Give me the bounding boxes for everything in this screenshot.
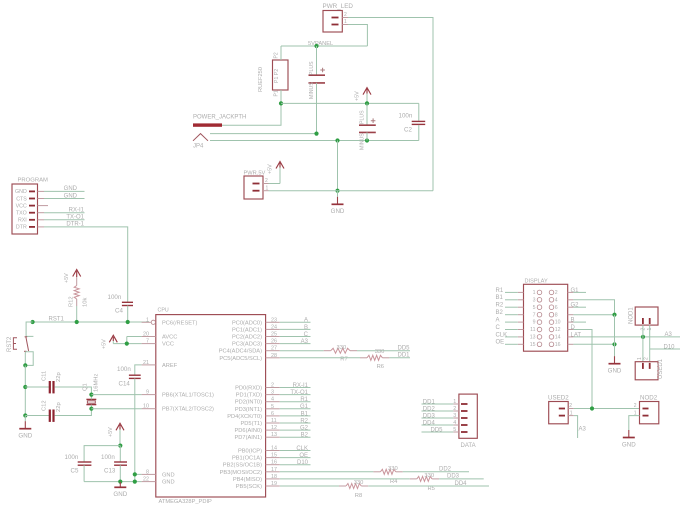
svg-text:CTS: CTS (16, 196, 27, 202)
svg-text:MINUS: MINUS (360, 133, 366, 150)
wire NOD1 pin1 to D10 / USED1 pin2 (649, 325, 651, 362)
svg-text:G2: G2 (300, 426, 309, 432)
svg-text:C11: C11 (42, 371, 48, 381)
svg-text:MINUS: MINUS (309, 82, 315, 99)
svg-text:PROGRAM: PROGRAM (18, 178, 49, 184)
junction RST / switch (30, 320, 34, 324)
svg-text:R6: R6 (377, 364, 384, 370)
connector DISPLAY (2x8 header) (524, 279, 568, 352)
wire PD7 / net label B2 (280, 433, 311, 439)
capacitor C1 polarized (PLUS/MINUS) (309, 46, 326, 134)
svg-text:CPU: CPU (158, 308, 169, 314)
svg-text:GND: GND (15, 189, 27, 195)
svg-text:7: 7 (146, 339, 149, 345)
CPU pin 8 GND (142, 469, 175, 478)
CPU pin 11 PD5(T1) (241, 418, 280, 427)
wire PC2 / net label C (280, 332, 311, 338)
junction GND column / C12 (23, 413, 27, 417)
svg-text:P1: P1 (274, 90, 280, 96)
svg-text:15: 15 (271, 453, 277, 459)
connector NOD1 (solder jumper) (629, 307, 659, 331)
power symbol +5V (PWR.5V) (268, 162, 285, 184)
wire DISPLAY left pin / net label OE (496, 340, 518, 346)
svg-text:100n: 100n (65, 454, 79, 461)
junction +5V rail / C3 plus (365, 101, 369, 105)
wire PD3 / net label G1 (280, 404, 311, 410)
svg-text:R12: R12 (69, 296, 75, 307)
CPU pin 13 PD7(AIN1) (235, 432, 280, 441)
wire PB1 / net label OE (280, 453, 311, 459)
svg-text:OE: OE (299, 453, 308, 459)
connector NOD2 (solder jumper) (634, 394, 659, 424)
wire PWR.5V pin2 to +5V arrow (269, 183, 281, 185)
svg-text:2: 2 (453, 406, 456, 412)
svg-text:14: 14 (271, 446, 277, 452)
resistor R7 330 (PC4 to DD5) (280, 345, 410, 362)
svg-text:PB5(SCK): PB5(SCK) (236, 484, 262, 490)
svg-text:27: 27 (271, 346, 277, 352)
svg-text:13: 13 (530, 335, 536, 341)
svg-text:PB6(XTAL1/TOSC1): PB6(XTAL1/TOSC1) (162, 393, 214, 399)
resistor R8 330 (PB5 to DD4) (280, 480, 489, 499)
CPU pin 5 PD3(INT1) (235, 404, 280, 413)
svg-text:DD1: DD1 (397, 353, 410, 359)
pin GND of PROGRAM (15, 189, 44, 195)
svg-text:25: 25 (271, 332, 277, 338)
wire PD5 / net label R2 (280, 418, 311, 424)
DISPLAY pins 7,8 row (518, 312, 574, 318)
svg-text:TX-O1: TX-O1 (290, 390, 308, 396)
wire DISPLAY left pin / net label C (496, 325, 518, 331)
CPU pin 3 PD1(TXD) (236, 390, 280, 399)
wire PROGRAM GND pin / net label GND (44, 186, 85, 192)
wire C14 to GND rail (long vertical) (134, 378, 136, 481)
svg-text:100n: 100n (108, 294, 122, 301)
wire PD2 / net label R1 (280, 397, 311, 403)
svg-text:B2: B2 (496, 310, 504, 316)
CPU pin 16 PB2(SS/OC1B) (223, 460, 280, 469)
svg-text:B2: B2 (301, 433, 309, 439)
pin 5 of DATA / net DD5 (422, 427, 468, 433)
DISPLAY pins 1,2 row (518, 290, 574, 296)
svg-text:330: 330 (375, 349, 385, 355)
junction crystal XTAL1 (89, 393, 93, 397)
CPU pin 23 PC0(ADC0) (232, 317, 280, 326)
svg-text:22: 22 (143, 477, 149, 483)
wire PWR_LED pin2 to GND rail (right side drop) (348, 18, 433, 191)
svg-text:PD1(TXD): PD1(TXD) (236, 393, 262, 399)
svg-text:6: 6 (555, 305, 558, 311)
svg-text:OE: OE (496, 340, 505, 346)
svg-text:TXO: TXO (16, 211, 27, 217)
svg-text:PWR.5V: PWR.5V (244, 171, 266, 177)
wire XTAL2 to CPU pin 10 (91, 408, 141, 410)
svg-text:AVCC: AVCC (162, 335, 177, 341)
svg-text:PC4(ADC4/SDA): PC4(ADC4/SDA) (219, 349, 262, 355)
wire DISPLAY left pin / net label B2 (496, 310, 518, 316)
wire GND rail drop to PWR.5V pin1 row (337, 141, 339, 191)
svg-text:GND: GND (331, 208, 345, 215)
svg-text:GND: GND (64, 186, 78, 192)
junction A3 rail / NOD1 (641, 335, 645, 339)
power symbol +5V (top) (355, 88, 372, 104)
svg-text:4: 4 (555, 297, 558, 303)
wire DISPLAY pin12 net D to USED2/NOD2 (571, 325, 593, 409)
svg-text:20: 20 (143, 332, 149, 338)
svg-text:PLUS: PLUS (360, 110, 366, 124)
wire PC0 / net label A (280, 318, 311, 324)
svg-text:+5V: +5V (268, 164, 274, 174)
wire +5V rail right drop to C2 (418, 103, 420, 121)
svg-text:GND: GND (64, 193, 78, 199)
wire DISPLAY pin14 net LAT / A3 rail (571, 332, 680, 338)
capacitor C4 100n (DTR-reset) (108, 294, 134, 322)
wire +5V to CPU pins 20 and 7 (113, 337, 141, 344)
svg-text:GND: GND (608, 368, 622, 375)
svg-text:GND: GND (162, 480, 175, 486)
svg-text:C14: C14 (119, 381, 131, 388)
svg-text:PD7(AIN1): PD7(AIN1) (235, 435, 263, 441)
junction GND drop / pin16 (612, 342, 616, 346)
resistor R12 10k (reset pullup) (69, 286, 89, 323)
svg-text:C2: C2 (404, 127, 412, 134)
wire DISPLAY left pin / net label CLK (496, 332, 518, 338)
wire DISPLAY pin10 / net label B (571, 318, 587, 324)
svg-text:PC2(ADC2): PC2(ADC2) (232, 335, 262, 341)
crystal Q1 16MHz (83, 374, 100, 409)
junction 5VPANEL / C1 plus (314, 44, 318, 48)
svg-text:1: 1 (146, 317, 149, 323)
svg-text:11: 11 (530, 327, 535, 333)
svg-text:NOD1: NOD1 (629, 307, 635, 324)
svg-text:R1: R1 (300, 397, 308, 403)
wire USED2 pin1 / net label A3 (574, 416, 587, 438)
svg-text:Q1: Q1 (83, 383, 89, 391)
svg-text:11: 11 (271, 418, 277, 424)
connector PROGRAM (FTDI 6-pin) (12, 178, 48, 235)
svg-text:PC1(ADC1): PC1(ADC1) (232, 327, 262, 333)
svg-text:DTR-1: DTR-1 (66, 222, 84, 228)
wire DISPLAY pin6 / net label G2 (571, 303, 587, 309)
svg-text:330: 330 (337, 345, 347, 351)
connector USED1 (solder jumper) (635, 357, 664, 380)
wire PWR_LED pin1 to 5VPANEL (348, 25, 367, 47)
pin DTR of PROGRAM (16, 225, 44, 231)
svg-text:3: 3 (533, 297, 536, 303)
wire to ground symbol (crystal caps) (24, 416, 26, 422)
svg-text:PC0(ADC0): PC0(ADC0) (232, 320, 262, 326)
svg-text:TX-O1: TX-O1 (66, 215, 84, 221)
wire jack pad to fuse node (222, 103, 281, 125)
svg-text:PD0(RXD): PD0(RXD) (235, 386, 262, 392)
svg-text:A3: A3 (301, 339, 309, 345)
svg-text:PB4(MISO): PB4(MISO) (233, 477, 262, 483)
svg-text:4: 4 (271, 397, 274, 403)
svg-text:RXI: RXI (18, 218, 27, 224)
wire USED2 pin2 to NOD2 pin2 (net D) (574, 408, 640, 410)
wire +5V rail horizontal (281, 102, 419, 104)
junction GND drop / pin8 (612, 313, 616, 317)
svg-text:22p: 22p (56, 402, 62, 412)
CPU pin 21 AREF (142, 360, 178, 369)
junction VCC/AVCC (125, 342, 129, 346)
wire CPU pin21 AREF to C14 (135, 365, 142, 375)
svg-text:D10: D10 (664, 344, 676, 350)
capacitor C5 100n (65, 454, 92, 482)
wire NOD2 pin1 to GND (629, 416, 640, 431)
junction C1 minus / jack (314, 132, 318, 136)
svg-text:3: 3 (453, 413, 456, 419)
junction GND rail / pin8 (133, 472, 137, 476)
wire DISPLAY left pin / net label B1 (496, 295, 518, 301)
svg-text:RUEF250: RUEF250 (258, 67, 264, 92)
svg-text:GND: GND (113, 491, 127, 498)
svg-text:24: 24 (271, 324, 277, 330)
resistor R5 330 (PB4 to DD3) (280, 473, 484, 492)
svg-text:B: B (304, 325, 308, 331)
svg-text:14: 14 (555, 335, 561, 341)
junction GND rail at drop (335, 138, 339, 142)
svg-text:P1 P2: P1 P2 (274, 69, 280, 83)
DISPLAY pins 5,6 row (518, 305, 574, 311)
CPU pin 20 AVCC (142, 332, 178, 341)
svg-text:4: 4 (453, 420, 456, 426)
fuse F1 RUEF250 (258, 46, 288, 97)
svg-text:R8: R8 (355, 493, 362, 499)
resistor R4 330 (PB3 to DD2) (280, 466, 469, 485)
wire PC3 / net label A3 (280, 339, 311, 345)
junction fuse / +5V rail (279, 101, 283, 105)
svg-text:23: 23 (271, 317, 277, 323)
svg-text:28: 28 (271, 353, 277, 359)
svg-text:DATA: DATA (461, 443, 476, 449)
svg-text:G1: G1 (300, 404, 309, 410)
connector PWR_LED (2-pin header) (323, 3, 354, 32)
wire DISPLAY pin16 to GND (573, 343, 614, 345)
svg-text:PB2(SS/OC1B): PB2(SS/OC1B) (223, 463, 262, 469)
pin CTS of PROGRAM (16, 196, 44, 202)
junction +5V / C5 branch (118, 444, 122, 448)
svg-text:1: 1 (533, 290, 536, 296)
svg-text:+5V: +5V (64, 273, 70, 283)
ground symbol (DISPLAY) (608, 356, 622, 374)
svg-text:PD2(INT0): PD2(INT0) (235, 400, 262, 406)
DISPLAY pins 3,4 row (518, 297, 574, 303)
svg-text:330: 330 (424, 473, 434, 479)
DISPLAY pins 15,16 row (518, 342, 574, 348)
svg-text:PD3(INT1): PD3(INT1) (235, 407, 262, 413)
svg-text:C: C (496, 325, 501, 331)
svg-text:DTR: DTR (16, 225, 27, 231)
svg-text:12: 12 (271, 425, 277, 431)
svg-text:USED1: USED1 (658, 358, 664, 379)
wire DISPLAY pin8 to GND drop (573, 314, 614, 316)
power jack POWER_JACKPTH JP4 (193, 115, 246, 150)
pin 1 of DATA / net DD1 (422, 399, 468, 405)
connector DATA (5-pin header) (459, 394, 477, 449)
svg-text:RST2: RST2 (7, 336, 13, 352)
power symbol +5V (CPU VCC) (102, 335, 118, 349)
svg-text:VCC: VCC (162, 342, 174, 348)
svg-text:B: B (571, 318, 575, 324)
svg-text:GND: GND (162, 472, 175, 478)
junction net D (590, 406, 594, 410)
wire net 5VPANEL horizontal (281, 45, 367, 47)
svg-text:G2: G2 (571, 303, 580, 309)
pin VCC of PROGRAM (16, 203, 44, 209)
CPU pin 7 VCC (142, 339, 174, 348)
svg-text:B1: B1 (496, 295, 504, 301)
svg-text:2: 2 (644, 357, 650, 360)
capacitor C11 22p (25, 371, 91, 395)
wire DISPLAY left pin / net label A (496, 318, 518, 324)
svg-text:5: 5 (453, 427, 456, 433)
svg-text:PD4(XCK/T0): PD4(XCK/T0) (227, 414, 262, 420)
capacitor C3 polarized (PLUS/MINUS) (359, 103, 376, 150)
svg-text:DD4: DD4 (454, 481, 467, 487)
svg-text:+5V: +5V (355, 91, 361, 101)
svg-text:100n: 100n (101, 454, 115, 461)
CPU pin 17 PB3(MOSI/OC2) (220, 467, 280, 476)
svg-text:21: 21 (143, 360, 149, 366)
svg-text:+5V: +5V (102, 339, 108, 349)
op-amp: none; IC U1 ATMEGA328P_PDIP CPU body (156, 308, 266, 506)
CPU pin 26 PC3(ADC3) (232, 339, 280, 348)
junction GND rail / C13 (118, 480, 122, 484)
CPU pin 27 PC4(ADC4/SDA) (219, 346, 280, 355)
svg-text:AREF: AREF (162, 363, 178, 369)
junction GND column / C11 (23, 385, 27, 389)
svg-text:PLUS: PLUS (309, 61, 315, 75)
wire +5V branch to C5 (84, 446, 120, 462)
ground symbol (CPU) (113, 482, 127, 498)
CPU pin 9 PB6(XTAL1/TOSC1) (142, 390, 214, 399)
svg-text:17: 17 (271, 467, 277, 473)
svg-text:330: 330 (388, 466, 398, 472)
svg-text:C: C (304, 332, 309, 338)
svg-text:R1: R1 (496, 288, 504, 294)
svg-text:22p: 22p (56, 372, 62, 382)
wire jack top pin to C1 minus (210, 133, 317, 135)
power symbol +5V (reset pullup) (64, 270, 81, 286)
svg-text:R5: R5 (428, 486, 435, 492)
svg-text:2: 2 (569, 403, 572, 409)
svg-text:16: 16 (555, 342, 561, 348)
svg-text:10: 10 (555, 320, 561, 326)
pin numbers PWR_LED 2,1 (344, 12, 347, 25)
CPU pin 24 PC1(ADC1) (232, 324, 280, 333)
CPU pin 22 GND (142, 477, 175, 486)
svg-text:NOD2: NOD2 (640, 394, 658, 401)
wire DISPLAY left pin / net label R2 (496, 303, 518, 309)
svg-text:B1: B1 (301, 411, 309, 417)
junction switch lower pins (23, 363, 27, 367)
svg-text:1: 1 (266, 185, 269, 191)
wire DISPLAY pin4 to GND drop (573, 300, 614, 315)
svg-text:8: 8 (555, 312, 558, 318)
svg-text:16MHz: 16MHz (94, 374, 100, 392)
wire PWR.5V pin1 to GND junction (269, 190, 434, 192)
wire PB2 / net label D10 (280, 460, 311, 466)
svg-text:D10: D10 (297, 460, 309, 466)
wire GND drop vertical (614, 315, 616, 357)
wire C2 bottom to GND rail (418, 125, 420, 141)
svg-text:2: 2 (634, 403, 637, 409)
svg-text:R2: R2 (496, 303, 504, 309)
CPU pin 25 PC2(ADC2) (232, 332, 280, 341)
pin 3 of DATA / net DD3 (422, 413, 468, 419)
svg-text:R2: R2 (300, 418, 308, 424)
svg-text:1: 1 (453, 399, 456, 405)
wire NOD1 pin2 to A3 rail / USED1 pin1 (642, 325, 644, 362)
svg-text:9: 9 (146, 390, 149, 396)
wire net RST to CPU pin 1 (33, 321, 149, 323)
pin RXI of PROGRAM (18, 218, 44, 224)
svg-text:LAT: LAT (571, 332, 582, 338)
svg-text:C13: C13 (104, 468, 116, 475)
svg-text:PD5(T1): PD5(T1) (241, 421, 263, 427)
wire GND rail to CPU pins 8/22 (84, 474, 142, 481)
svg-text:DD2: DD2 (423, 406, 436, 412)
pin 4 of DATA / net DD4 (422, 420, 468, 426)
wire jack bottom pin GND rail (210, 140, 419, 142)
capacitor C13 100n (101, 446, 127, 482)
wire PROGRAM DTR pin / net label DTR-1 (runs to C4) (44, 222, 128, 302)
wire GND junction to ground symbol (337, 191, 339, 197)
svg-text:100n: 100n (117, 366, 131, 373)
svg-text:PC6(/RESET): PC6(/RESET) (162, 320, 198, 326)
svg-text:7: 7 (533, 312, 536, 318)
resistor R6 330 (PC5 to DD1) (280, 349, 410, 370)
svg-text:12: 12 (555, 327, 561, 333)
svg-text:PB3(MOSI/OC2): PB3(MOSI/OC2) (220, 470, 262, 476)
svg-text:2: 2 (265, 178, 268, 184)
junction crystal XTAL2 (89, 407, 93, 411)
power symbol +5V (decoupling) (108, 423, 124, 445)
wire PD6 / net label G2 (280, 426, 311, 432)
svg-text:CLK: CLK (296, 446, 308, 452)
wire PD4 / net label B1 (280, 411, 311, 417)
svg-text:CLK: CLK (496, 332, 508, 338)
pin TXO of PROGRAM (16, 211, 44, 217)
svg-text:10: 10 (143, 404, 149, 410)
svg-text:DD1: DD1 (423, 399, 436, 405)
svg-text:DD2: DD2 (439, 467, 452, 473)
svg-text:D: D (571, 325, 576, 331)
svg-text:26: 26 (271, 339, 277, 345)
svg-text:19: 19 (271, 481, 277, 487)
ground symbol (crystal caps) (18, 421, 32, 439)
CPU pin 6 PD4(XCK/T0) (227, 411, 280, 420)
svg-text:13: 13 (271, 432, 277, 438)
svg-text:RX-I1: RX-I1 (293, 383, 309, 389)
wire XTAL1 to CPU pin 9 (91, 394, 141, 396)
CPU pin 15 PB1(OC1A) (232, 453, 280, 462)
svg-text:10k: 10k (83, 298, 89, 307)
svg-text:PB7(XTAL2/TOSC2): PB7(XTAL2/TOSC2) (162, 407, 214, 413)
DISPLAY pins 9,10 row (518, 320, 574, 326)
wire fuse bottom to +5V node (280, 90, 282, 103)
CPU pin 28 PC5(ADC5/SCL) (219, 353, 279, 362)
svg-text:2: 2 (271, 383, 274, 389)
svg-text:PB0(ICP): PB0(ICP) (238, 449, 262, 455)
ground symbol (power section) (331, 197, 345, 215)
wire switch to GND column (24, 365, 26, 415)
svg-text:DD3: DD3 (447, 474, 460, 480)
wire DISPLAY left pin / net label R1 (496, 288, 518, 294)
svg-text:C12: C12 (42, 400, 48, 411)
svg-text:1: 1 (637, 357, 643, 360)
